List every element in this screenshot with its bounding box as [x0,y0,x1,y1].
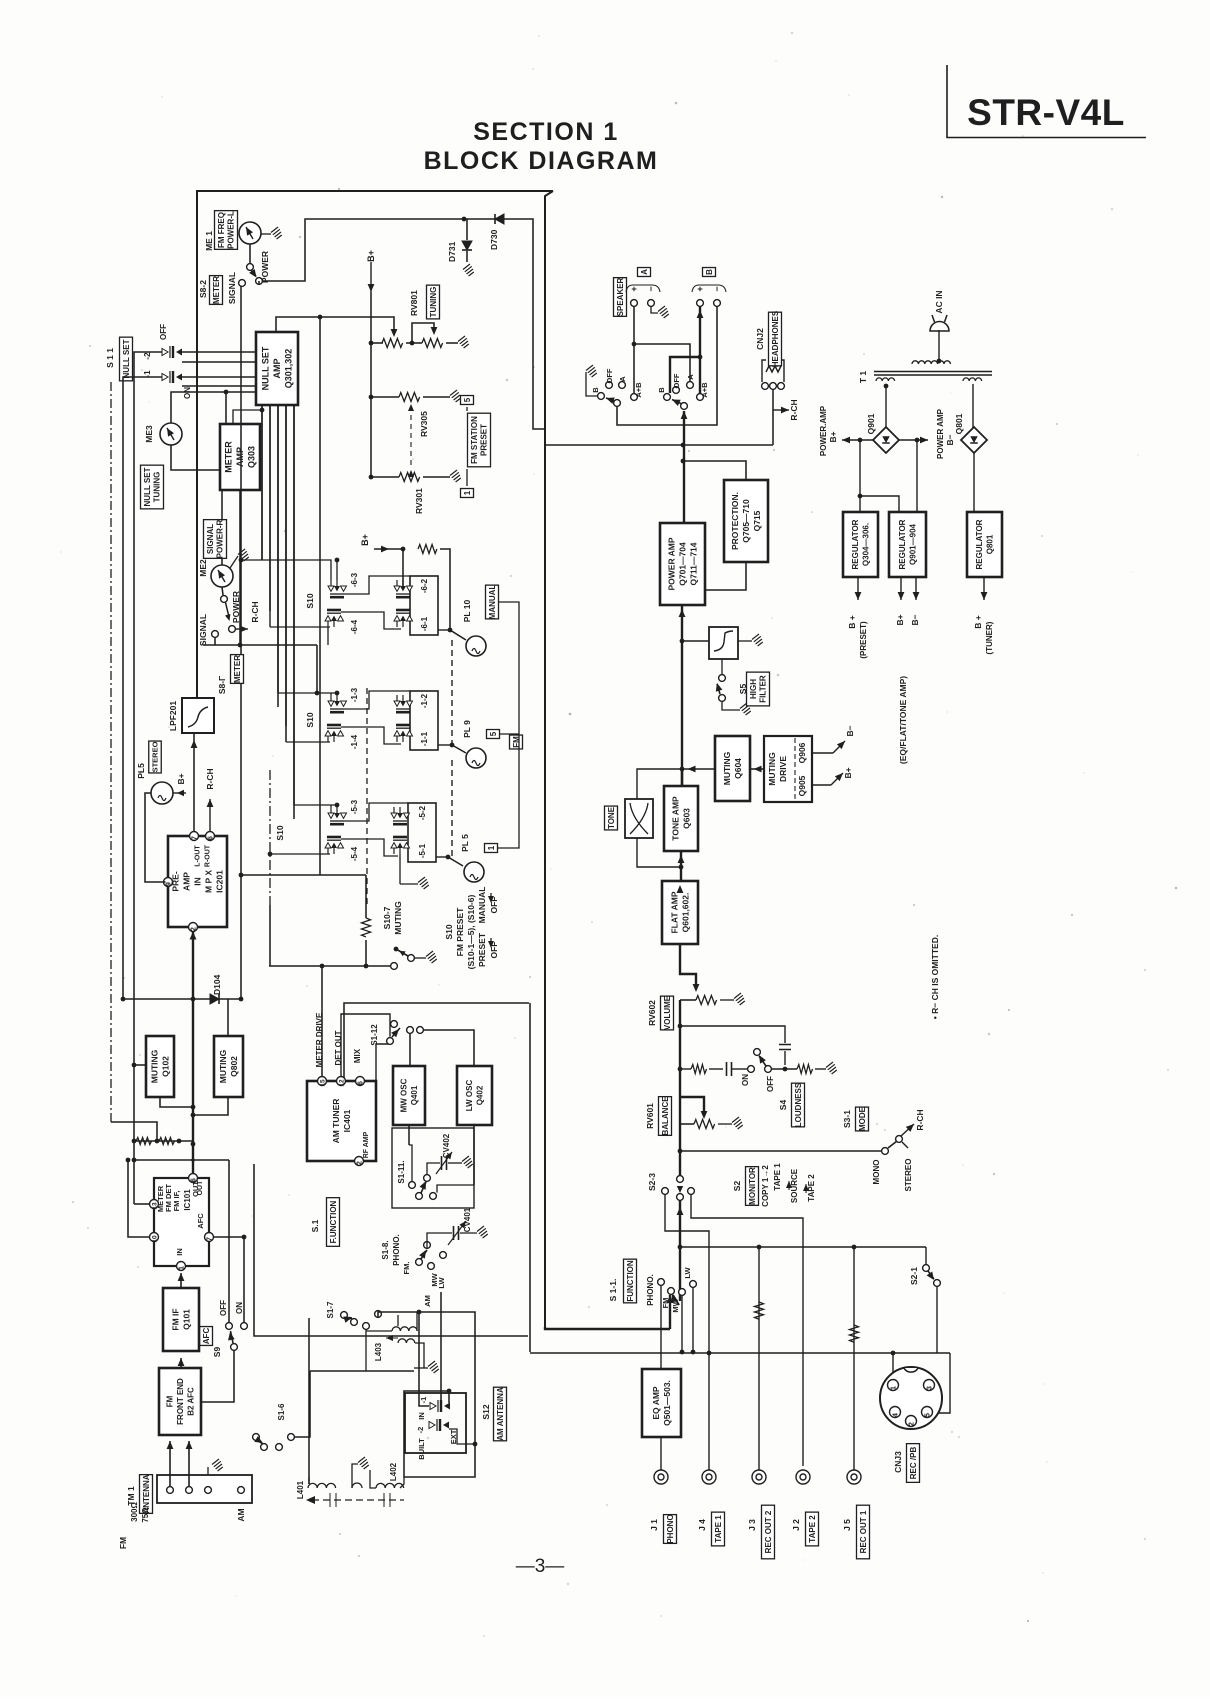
wire Q102 connections [134,1064,146,1066]
preset switch -6-4 [325,610,344,627]
wire pin6 R-CH out [209,799,211,832]
svg-text:S2: S2 [732,1181,742,1192]
svg-text:TONE AMP: TONE AMP [671,796,681,841]
amplifier NULL SET AMP Q301,302 [256,332,298,405]
transformer T1 core [874,371,992,373]
svg-text:S2-1: S2-1 [909,1267,919,1285]
svg-text:Q603: Q603 [682,808,692,829]
wire lpf input from IC201 pin7 [193,733,195,760]
ground near ME2 [230,556,238,568]
dashed coupling line [312,1499,404,1501]
svg-text:J 2: J 2 [791,1519,801,1531]
label SIGNAL POWER-R [204,520,227,559]
svg-text:R-OUT: R-OUT [205,844,212,867]
pin 12 IC401 [337,1077,346,1086]
svg-text:POWER AMP: POWER AMP [936,408,945,459]
ground below D731 [466,251,468,262]
switch S2-1 [925,1247,927,1264]
switch ME2 power/signal [222,587,223,595]
label 5 preset [461,396,474,405]
svg-text:MANUAL: MANUAL [477,887,487,924]
main L-ch bus corner to FM contact [545,1327,670,1329]
svg-text:3: 3 [927,1386,934,1390]
svg-text:HEADPHONES: HEADPHONES [771,310,780,367]
svg-text:POWER AMP: POWER AMP [667,537,677,590]
svg-text:CNJ3: CNJ3 [893,1451,903,1473]
svg-text:FLAT AMP: FLAT AMP [670,891,680,933]
thick bus volume to balance [679,1000,681,1097]
svg-text:-1-4: -1-4 [350,734,359,749]
svg-text:Q705—710: Q705—710 [741,499,751,543]
svg-text:TAPE 1: TAPE 1 [714,1515,723,1543]
svg-text:OUT: OUT [197,1180,204,1196]
svg-text:AM: AM [236,1508,246,1521]
svg-text:FM IF: FM IF [171,1308,181,1330]
wire power amp input thick [681,605,683,786]
svg-text:Q801: Q801 [954,413,964,434]
svg-text:AFC: AFC [202,1328,211,1345]
wire bank1 row1 feeds [241,560,331,580]
svg-text:PL 9: PL 9 [462,720,472,738]
low pass filter LPF201 [182,698,214,733]
wire q604 to signal [682,768,715,770]
wire muting drive to q604 [750,768,764,770]
svg-text:EQ AMP: EQ AMP [651,1386,661,1420]
switch S12 built-in [430,1400,450,1412]
svg-text:B+: B+ [360,534,370,546]
wire line y1160 [133,1141,135,1204]
svg-text:STEREO: STEREO [904,1159,913,1192]
wire B+ thick to A+B [699,306,701,393]
svg-text:-1-3: -1-3 [350,687,359,702]
svg-text:5: 5 [925,1413,932,1417]
wire speaker A return to B- [617,306,717,425]
svg-text:B2 AFC: B2 AFC [186,1387,195,1416]
svg-text:FM: FM [118,1537,128,1549]
svg-text:B+: B+ [176,773,186,784]
svg-text:D104: D104 [212,974,222,995]
svg-text:S10: S10 [275,825,285,840]
wire R-CH from power contact [235,628,248,630]
wire outer loop top-left [197,191,553,698]
wire bank1 row2 feeds [278,692,337,694]
wire to PL9 [438,744,452,746]
svg-text:Q715: Q715 [752,510,762,531]
regulator Q801 [967,512,1002,577]
svg-text:1: 1 [179,1266,186,1270]
svg-text:A: A [618,376,627,382]
wire lw osc down to cv [473,1125,475,1185]
svg-text:CV402: CV402 [442,1133,451,1158]
svg-text:AM TUNER: AM TUNER [331,1099,341,1144]
rec out 1 jack J5 [847,1470,861,1484]
svg-text:Q701—704: Q701—704 [678,542,688,586]
wire Q801 to regulator [973,453,975,512]
svg-text:IN: IN [193,877,203,886]
svg-text:TAPE 2: TAPE 2 [807,1174,816,1202]
svg-text:AC IN: AC IN [934,290,944,313]
svg-text:METER: METER [233,655,242,683]
svg-text:CV401: CV401 [463,1207,472,1232]
svg-text:R-CH: R-CH [205,768,215,789]
svg-text:MONITOR: MONITOR [748,1167,757,1205]
svg-text:NULL SET: NULL SET [143,467,152,506]
svg-text:S10-7: S10-7 [382,906,392,929]
svg-text:RV301: RV301 [414,488,424,514]
AC IN plug [930,322,949,332]
svg-text:LW OSC: LW OSC [465,1080,474,1112]
diode D104 [210,994,219,1004]
terminal SIGNAL S8-2 [239,280,246,287]
headphone jack CNJ2 [762,360,784,382]
transformer secondary left [876,378,895,381]
antenna terminal box TM1 [157,1475,252,1503]
svg-text:PHONO: PHONO [666,1514,675,1543]
wire S11 left feeds [134,352,162,1141]
svg-text:12: 12 [339,1079,346,1087]
svg-text:NULL SET: NULL SET [122,339,131,378]
svg-text:RV601: RV601 [645,1103,655,1129]
svg-text:FM: FM [165,1395,174,1407]
svg-text:ON: ON [235,1302,244,1314]
svg-text:OFF: OFF [672,373,681,388]
preset switch -5-3 [328,807,347,824]
svg-text:SPEAKER: SPEAKER [616,277,625,316]
wire protection taps [683,461,746,480]
svg-text:6: 6 [208,836,215,840]
wire S12 loop [378,1312,475,1477]
wire high filter [682,640,709,642]
svg-text:AM ANTENNA: AM ANTENNA [496,1387,505,1441]
svg-text:SIGNAL: SIGNAL [206,524,215,554]
wire pin13 pin10 left [134,1203,150,1205]
svg-text:5: 5 [489,731,498,736]
svg-text:REC OUT 1: REC OUT 1 [859,1510,868,1553]
wire bank1 to box row3 [344,803,408,821]
svg-text:LW: LW [683,1266,692,1278]
wire tone amp in/out thick [681,769,683,786]
svg-text:IN: IN [175,1248,184,1256]
svg-text:POWER-L: POWER-L [227,211,236,249]
svg-text:OFF: OFF [219,1300,228,1316]
svg-text:METER: METER [224,441,234,473]
svg-text:Q905: Q905 [797,775,807,796]
wire regulator outputs [857,577,859,600]
wire pin2 from FM det [190,932,197,940]
regulator Q901-904 [889,512,926,577]
tone amp Q603 [664,786,698,851]
svg-text:LOUDNESS: LOUDNESS [794,1082,803,1127]
svg-text:A: A [686,374,695,380]
svg-text:-6-1: -6-1 [420,616,429,631]
amplifier FM IF Q101 [163,1288,199,1351]
meter ME2 [211,565,233,587]
svg-text:Q401: Q401 [410,1085,419,1105]
svg-text:1: 1 [487,845,496,850]
wire bank1 to box row2 [344,691,410,709]
pin 6 IC101 [189,1174,198,1183]
preset switch -6-3 [328,580,347,597]
wire outer loop right side [545,191,553,1327]
svg-text:Q802: Q802 [229,1056,239,1077]
diode D731 [466,219,468,240]
am tuner IC401 [307,1081,376,1161]
svg-text:MUTING: MUTING [767,752,777,786]
wire to 2nd wafer A contact [634,344,690,382]
svg-text:S1-11.: S1-11. [397,1160,406,1183]
wire lpf output up [196,645,198,698]
svg-text:S8-Γ: S8-Γ [217,676,227,694]
svg-text:ON: ON [741,1074,750,1086]
svg-text:REC OUT 2: REC OUT 2 [764,1510,773,1553]
wire R-CH mode [901,1124,914,1136]
svg-text:S12: S12 [481,1404,491,1419]
wire s17 verticals [308,1318,310,1484]
loudness network [680,1068,691,1070]
speaker feed arrow from power amp [683,411,685,523]
model label STR-V4L [947,65,1146,138]
svg-text:TUNING: TUNING [153,472,162,503]
svg-text:NULL SET: NULL SET [261,346,271,390]
svg-text:SOURCE: SOURCE [790,1168,799,1203]
svg-text:S10: S10 [444,924,454,939]
wire R-CH headphone [773,409,789,411]
box -5-1/-5-2 group [408,803,436,862]
svg-text:-1-2: -1-2 [420,693,429,708]
label 1 preset [466,469,468,486]
protection block Q705-710 Q715 [724,480,768,562]
svg-text:A+B: A+B [634,382,643,398]
wire ME3 loop [171,392,256,423]
svg-text:MODE: MODE [858,1106,867,1131]
svg-text:MONO: MONO [872,1160,881,1185]
svg-text:REGULATOR: REGULATOR [975,519,984,569]
meter ME3 [160,423,182,445]
svg-text:-5-2: -5-2 [418,805,427,820]
svg-text:CNJ2: CNJ2 [755,328,765,350]
svg-text:OFF: OFF [766,1076,775,1092]
svg-text:2: 2 [191,927,198,931]
svg-text:10: 10 [152,1235,159,1243]
lamp PL5 dial [464,862,484,882]
tone control block [625,799,653,838]
muting block Q102 [146,1036,174,1097]
rec out 2 jack J3 [752,1470,766,1484]
tape1 jack J4 [702,1470,716,1484]
switch S12 ext [429,1419,449,1431]
flat amp Q601 602 [662,881,698,944]
wire branch down from supply line [319,317,321,875]
transformer T1 primary [912,361,950,364]
switch S1-11 box [392,1128,474,1208]
svg-text:Q901—904: Q901—904 [909,523,918,564]
amplifier METER AMP Q303 [220,424,260,490]
inductor L401 [308,1483,336,1488]
wire to PL10 [438,629,450,631]
svg-text:Q304—306.: Q304—306. [862,523,871,566]
svg-text:PRESET: PRESET [477,932,487,967]
pin 9 IC201 [164,878,173,887]
svg-text:B+: B+ [828,431,838,442]
svg-text:S9: S9 [212,1347,222,1358]
svg-text:TAPE 1: TAPE 1 [773,1163,782,1191]
svg-text:PRESET: PRESET [480,424,489,456]
svg-text:OFF: OFF [489,897,499,914]
svg-text:SECTION 1: SECTION 1 [473,118,618,146]
svg-text:5: 5 [463,397,472,402]
wire S2-1 down [936,1286,938,1353]
lamp PL9 [466,748,486,768]
wire up to S10 bus [241,875,366,999]
ground antenna [207,1467,209,1475]
ground at ME1 [261,233,271,235]
wire J4 tape1 down [708,1353,710,1470]
wire pin15 up [321,966,323,1077]
FM signal bus vertical [529,1003,531,1352]
switch S3-3 speaker B [664,394,671,401]
wire J3 rec out 2 [758,1247,760,1470]
svg-text:B−: B− [845,725,855,736]
svg-text:RV602: RV602 [647,1000,657,1026]
wire CNJ3 pin1 up [892,1353,894,1381]
svg-text:7: 7 [192,836,199,840]
wire S8-2 signal down [240,286,242,875]
wire B+ at PL5 [173,792,186,794]
svg-text:MUTING: MUTING [218,1049,228,1083]
volume pot RV602 [696,996,717,1005]
pin 7 IC101 [205,1233,214,1242]
wire s1-6 to am line [294,1371,310,1437]
svg-text:+: + [629,286,639,291]
wire antenna feeds [167,1441,174,1449]
svg-text:ON: ON [183,387,192,399]
pin 2 IC201 [189,923,198,932]
muting drive block Q905 Q906 [764,736,812,802]
svg-text:A+B: A+B [700,382,709,398]
capacitor CV401 [427,1233,452,1248]
wire power to D730 line [258,281,260,285]
svg-text:B+: B+ [895,614,905,625]
wire lw osc feed [420,1030,474,1066]
preset switch -1-4 [325,725,344,742]
svg-text:COPY 1→2: COPY 1→2 [761,1165,770,1207]
svg-text:HIGH: HIGH [749,679,758,699]
S12 am antenna box [405,1393,466,1453]
svg-text:Q906: Q906 [797,742,807,763]
pin 10 IC101 [150,1233,159,1242]
ground at B contact [586,372,598,396]
regulator Q304-306 [843,512,878,577]
svg-text:A: A [640,269,649,275]
svg-text:PHONO.: PHONO. [392,1234,401,1266]
preset switch -5-4 [325,837,344,854]
svg-text:FRONT END: FRONT END [176,1378,185,1425]
label FM STATION PRESET [468,413,491,467]
wire null set amp supply line [276,317,394,332]
svg-text:2: 2 [357,1161,364,1165]
EQ amp Q501-503 [642,1369,681,1437]
switch S2-3 tape monitor [677,1176,684,1183]
svg-text:RV305: RV305 [419,411,429,437]
high filter block [709,627,738,659]
oscillator LW OSC Q402 [457,1066,492,1125]
svg-text:L403: L403 [374,1342,383,1361]
ground S10 row3 [399,854,401,884]
svg-text:PHONO.: PHONO. [646,1274,655,1306]
svg-text:FM FREQ: FM FREQ [217,212,226,248]
preset switch -5-2 [391,807,410,824]
svg-text:-6-3: -6-3 [350,572,359,587]
DIN connector CNJ3 [880,1367,942,1429]
svg-text:-2: -2 [143,352,152,360]
ground speaker A- [651,306,658,313]
preset switch -1-3 [328,695,347,712]
svg-text:S.1: S.1 [310,1219,320,1232]
svg-text:MW OSC: MW OSC [400,1078,409,1112]
svg-text:• R− CH IS OMITTED.: • R− CH IS OMITTED. [930,935,940,1019]
svg-text:4: 4 [893,1413,900,1417]
svg-text:MUTING: MUTING [393,901,403,935]
svg-text:LPF201: LPF201 [168,701,178,732]
svg-text:PL 10: PL 10 [462,599,472,622]
svg-text:M P X: M P X [204,870,214,893]
svg-text:R-CH: R-CH [915,1109,925,1130]
svg-text:PL 5: PL 5 [460,834,470,852]
switch S3-1 mode [888,1141,897,1148]
svg-text:13: 13 [152,1202,159,1210]
dash-dot bus left [269,770,271,905]
svg-text:-6-4: -6-4 [350,619,359,634]
wire bank1 to box row1 [344,576,410,594]
svg-text:(EQ/FLAT/TONE AMP): (EQ/FLAT/TONE AMP) [898,676,908,764]
thick bus balance down [679,1097,681,1175]
svg-text:Q501—503.: Q501—503. [662,1380,672,1426]
svg-text:STEREO: STEREO [151,741,160,772]
inductor L403 [392,1327,417,1331]
pin 6 IC201 [206,832,215,841]
svg-text:FM STATION: FM STATION [470,416,479,464]
bracket manual/fm/preset lamps [498,602,519,848]
svg-text:B: B [657,387,666,393]
svg-text:METER: METER [212,276,221,304]
dash-dot bus far left [110,382,112,1122]
preset switch -5-1 [391,837,410,854]
potentiometer RV305 [371,396,399,398]
svg-text:15: 15 [320,1079,327,1087]
svg-text:B+: B+ [366,250,376,262]
thick bus to function switch [678,1245,683,1250]
svg-text:B +: B + [847,615,857,629]
wire pin6 up (FM det out) [192,999,194,1174]
svg-text:Q102: Q102 [161,1056,171,1077]
wire am line [310,1370,414,1372]
amplifier FM FRONT END [159,1368,201,1435]
wire pin9 to PL5 [145,793,166,882]
wire B+ power amp [842,439,873,441]
svg-text:(TUNER): (TUNER) [985,621,994,654]
long wire y445 [545,444,773,446]
svg-text:+: + [695,286,705,291]
svg-text:MUTING: MUTING [150,1049,160,1083]
svg-text:Q711—714: Q711—714 [689,542,699,585]
svg-text:FM: FM [661,1298,670,1309]
wire B+ down [370,262,372,292]
svg-text:POWER-R: POWER-R [216,519,225,558]
svg-text:S 1 1: S 1 1 [105,348,115,368]
wire Q802 connections [227,999,229,1036]
wire tone loop [637,769,681,799]
AM section enclosure [344,1003,529,1081]
